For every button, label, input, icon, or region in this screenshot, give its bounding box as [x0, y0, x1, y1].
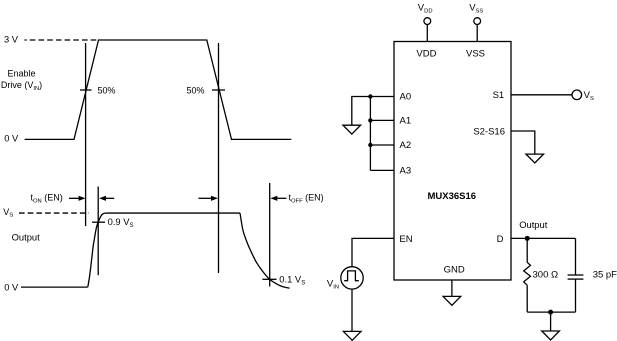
- svg-text:35 pF: 35 pF: [593, 269, 617, 280]
- node 50% tick falling: [212, 89, 225, 91]
- node junction D: [525, 236, 530, 241]
- wire A3: [370, 169, 394, 171]
- wire vertical marker 0.1VS: [269, 183, 271, 287]
- svg-text:Output: Output: [519, 219, 548, 230]
- svg-text:VSS: VSS: [466, 49, 485, 60]
- node 0.9VS tick: [92, 221, 105, 223]
- wire capacitor branch top: [575, 238, 577, 275]
- wire EN: [352, 238, 394, 266]
- svg-text:Drive (VIN): Drive (VIN): [1, 80, 42, 92]
- svg-text:A3: A3: [400, 165, 412, 176]
- svg-text:3 V: 3 V: [4, 35, 19, 45]
- svg-text:50%: 50%: [187, 86, 205, 96]
- svg-text:VIN: VIN: [327, 279, 339, 291]
- wire D to output: [511, 237, 576, 239]
- svg-text:0 V: 0 V: [4, 282, 19, 292]
- svg-text:300 Ω: 300 Ω: [533, 269, 559, 280]
- wire vertical marker rising 50%: [85, 43, 87, 226]
- wire A2: [370, 144, 394, 146]
- svg-text:EN: EN: [399, 234, 412, 245]
- svg-text:0.9 VS: 0.9 VS: [108, 216, 134, 229]
- wire resistor to bottom: [526, 285, 528, 312]
- wire S2-S16 to ground: [511, 131, 535, 154]
- ground VIN: [343, 331, 361, 340]
- wire capacitor to bottom: [575, 279, 577, 312]
- svg-text:D: D: [497, 234, 504, 245]
- svg-text:VS: VS: [3, 207, 13, 219]
- svg-text:MUX36S16: MUX36S16: [428, 191, 477, 202]
- wire bottom to ground: [550, 312, 552, 331]
- ground S2-S16: [526, 154, 544, 163]
- wire VIN to ground: [351, 289, 353, 331]
- node VS terminal: [572, 90, 582, 100]
- svg-text:0 V: 0 V: [4, 133, 19, 143]
- svg-text:tOFF (EN): tOFF (EN): [289, 193, 324, 205]
- ground GND: [443, 296, 461, 305]
- svg-text:tON (EN): tON (EN): [31, 193, 63, 205]
- svg-text:50%: 50%: [98, 86, 116, 96]
- wire to resistor: [526, 238, 528, 262]
- svg-text:VDD: VDD: [418, 3, 433, 15]
- wire vertical marker falling 50%: [218, 43, 220, 273]
- resistor 300 ohm: [524, 262, 531, 285]
- wire bottom rail: [527, 311, 575, 313]
- svg-text:Enable: Enable: [7, 69, 35, 79]
- wire output waveform: [21, 286, 88, 288]
- node tOFF label and arrows: [199, 197, 212, 199]
- wire vertical marker 0.9VS: [97, 187, 99, 276]
- wire VDD: [426, 25, 428, 42]
- wire VSS: [476, 25, 478, 42]
- svg-text:S2-S16: S2-S16: [473, 126, 505, 137]
- svg-text:Output: Output: [12, 231, 41, 242]
- svg-text:A1: A1: [400, 115, 412, 126]
- IC U1 MUX36S16 box: [394, 42, 511, 281]
- source VIN pulse generator: [341, 267, 363, 289]
- node 0.1VS tick: [262, 278, 276, 280]
- ground address: [343, 125, 361, 134]
- capacitor 35 pF: [568, 274, 584, 276]
- wire enable drive waveform: [25, 40, 292, 139]
- svg-text:0.1 VS: 0.1 VS: [279, 274, 305, 287]
- node 50% tick rising: [80, 89, 92, 91]
- node junction bottom: [548, 310, 553, 315]
- wire address bus: [369, 97, 371, 171]
- svg-text:A0: A0: [400, 92, 412, 103]
- node junction A1: [368, 118, 372, 122]
- svg-text:VDD: VDD: [416, 49, 436, 60]
- node junction A0: [368, 94, 372, 98]
- svg-text:VSS: VSS: [469, 3, 483, 15]
- svg-text:VS: VS: [584, 90, 594, 102]
- ground RC load: [542, 331, 560, 340]
- wire address ground branch: [352, 97, 371, 126]
- svg-text:GND: GND: [444, 265, 465, 276]
- wire A0: [370, 96, 394, 98]
- node junction A2: [368, 143, 372, 147]
- wire S1 to VS: [511, 94, 572, 96]
- svg-text:S1: S1: [493, 90, 505, 101]
- svg-text:A2: A2: [400, 140, 412, 151]
- wire dashed VS level: [19, 212, 89, 214]
- wire A1: [370, 119, 394, 121]
- wire GND pin: [451, 280, 453, 296]
- wire dashed 3V level: [25, 39, 98, 41]
